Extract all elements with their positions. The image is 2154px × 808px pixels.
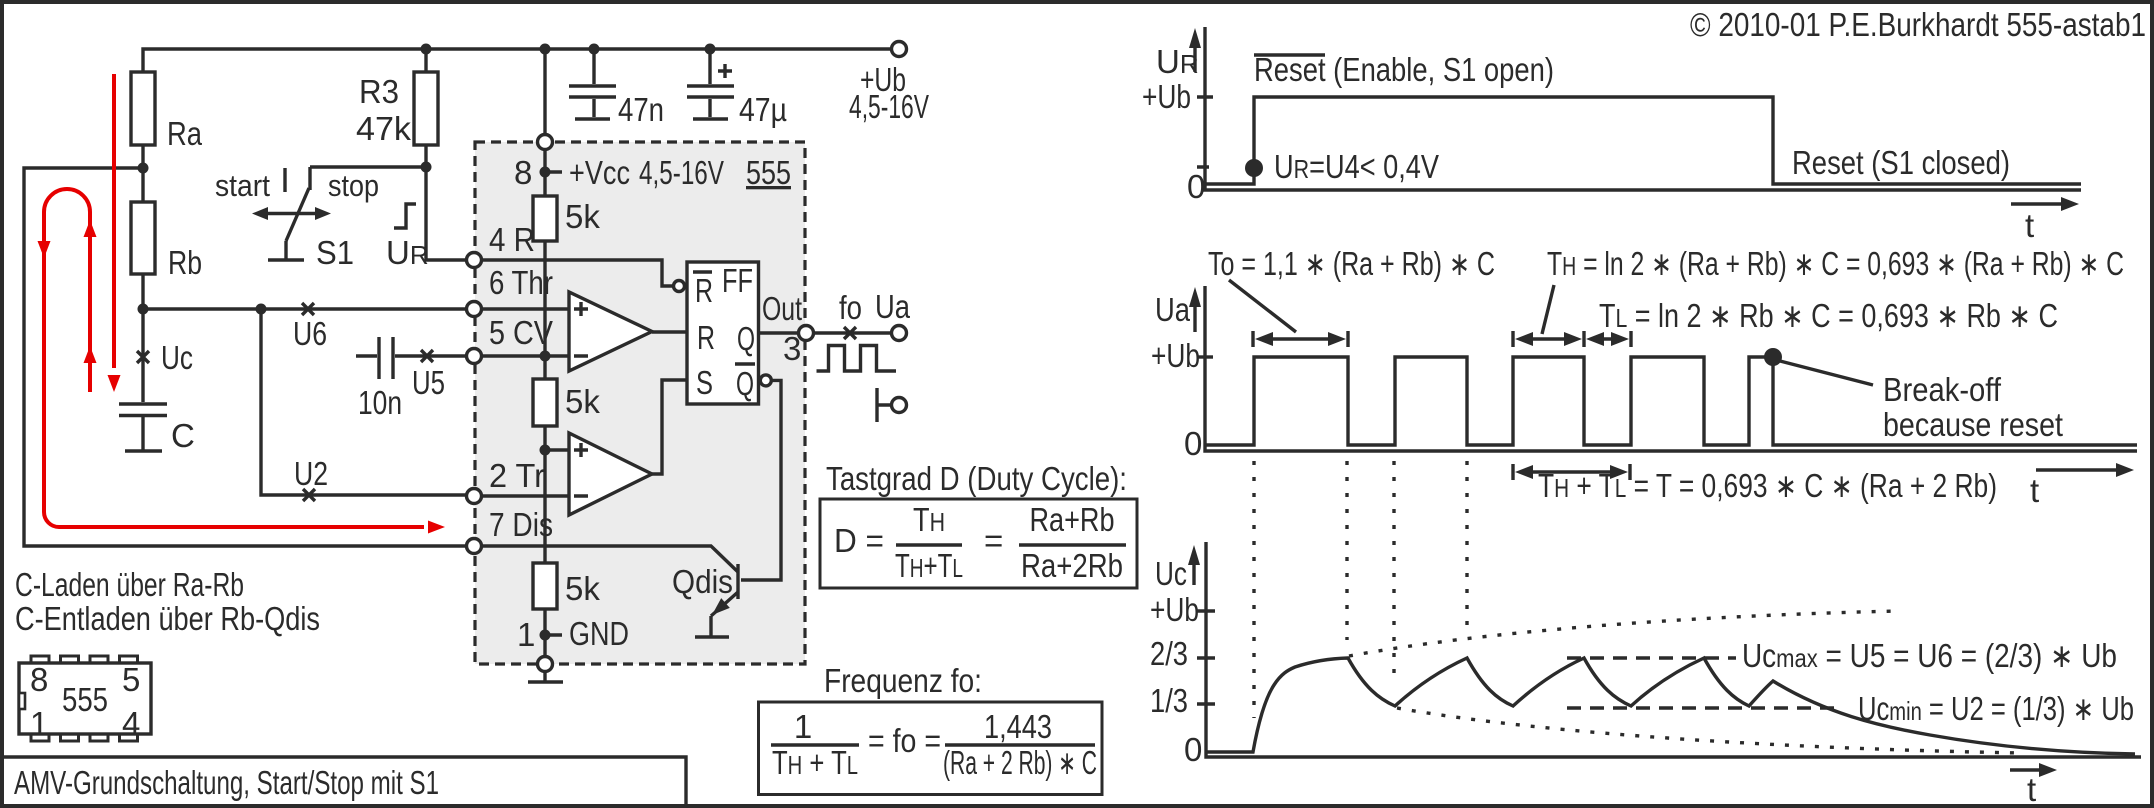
svg-text:TH + TL: TH + TL	[772, 744, 858, 781]
svg-text:Ua: Ua	[1155, 291, 1191, 328]
svg-text:R3: R3	[359, 73, 399, 110]
svg-text:© 2010-01 P.E.Burkhardt 555-as: © 2010-01 P.E.Burkhardt 555-astab1	[1690, 6, 2146, 43]
svg-text:6 Thr: 6 Thr	[489, 264, 553, 301]
svg-text:=: =	[984, 522, 1003, 559]
svg-text:0: 0	[1184, 731, 1202, 768]
svg-text:+Ub: +Ub	[1150, 591, 1199, 628]
svg-text:555: 555	[62, 681, 108, 718]
svg-text:4,5-16V: 4,5-16V	[849, 88, 929, 125]
svg-text:3: 3	[783, 330, 801, 367]
svg-text:C: C	[171, 417, 195, 454]
svg-text:Rb: Rb	[168, 244, 202, 281]
svg-text:U6: U6	[293, 315, 327, 352]
svg-text:Tastgrad D (Duty Cycle):: Tastgrad D (Duty Cycle):	[826, 460, 1127, 497]
svg-text:1: 1	[30, 705, 48, 742]
svg-text:2 Tr: 2 Tr	[489, 457, 545, 494]
svg-text:R: R	[695, 272, 713, 309]
svg-text:C-Laden über Ra-Rb: C-Laden über Ra-Rb	[15, 566, 244, 603]
svg-text:47k: 47k	[356, 110, 412, 147]
svg-text:t: t	[2025, 207, 2034, 244]
svg-text:Ra+Rb: Ra+Rb	[1030, 501, 1115, 538]
svg-text:Ra+2Rb: Ra+2Rb	[1021, 547, 1123, 584]
svg-text:+Vcc: +Vcc	[569, 154, 630, 191]
svg-text:4,5-16V: 4,5-16V	[639, 154, 724, 191]
svg-text:5: 5	[122, 661, 140, 698]
svg-text:TL = ln 2 ∗ Rb ∗ C = 0,693 ∗ R: TL = ln 2 ∗ Rb ∗ C = 0,693 ∗ Rb ∗ C	[1599, 297, 2058, 334]
svg-text:0: 0	[1184, 425, 1202, 462]
svg-text:(Ra + 2 Rb) ∗ C: (Ra + 2 Rb) ∗ C	[943, 744, 1097, 781]
svg-text:Uc: Uc	[1155, 555, 1187, 592]
svg-text:47n: 47n	[618, 91, 664, 128]
svg-text:TH+TL: TH+TL	[895, 547, 963, 584]
svg-text:= fo =: = fo =	[868, 722, 941, 759]
svg-text:S1: S1	[316, 234, 354, 271]
svg-text:To = 1,1 ∗ (Ra + Rb) ∗ C: To = 1,1 ∗ (Ra + Rb) ∗ C	[1208, 245, 1495, 282]
svg-text:because reset: because reset	[1883, 406, 2063, 443]
svg-text:1,443: 1,443	[984, 708, 1052, 745]
svg-text:TH + TL = T = 0,693 ∗ C ∗ (Ra: TH + TL = T = 0,693 ∗ C ∗ (Ra + 2 Rb)	[1538, 467, 1997, 504]
svg-text:1: 1	[794, 708, 812, 745]
svg-text:Ra: Ra	[167, 115, 203, 152]
svg-text:GND: GND	[569, 615, 629, 652]
svg-text:1: 1	[517, 616, 535, 653]
svg-text:5k: 5k	[565, 383, 600, 420]
svg-text:stop: stop	[328, 168, 379, 203]
svg-text:7 Dis: 7 Dis	[489, 506, 553, 543]
svg-text:+Ub: +Ub	[1151, 337, 1200, 374]
svg-text:fo: fo	[839, 289, 862, 326]
svg-text:Reset (S1 closed): Reset (S1 closed)	[1792, 144, 2010, 181]
svg-text:0: 0	[1187, 168, 1205, 205]
svg-text:FF: FF	[722, 262, 753, 299]
svg-text:UR: UR	[1156, 43, 1199, 80]
svg-text:UR=U4< 0,4V: UR=U4< 0,4V	[1274, 148, 1439, 185]
svg-text:5k: 5k	[565, 570, 600, 607]
svg-text:TH: TH	[913, 501, 945, 538]
svg-text:4 R: 4 R	[489, 221, 535, 258]
svg-text:1/3: 1/3	[1150, 682, 1188, 719]
svg-text:10n: 10n	[358, 384, 402, 421]
svg-text:5 CV: 5 CV	[489, 314, 553, 351]
svg-text:4: 4	[122, 705, 140, 742]
svg-text:Q: Q	[737, 320, 755, 357]
svg-text:Break-off: Break-off	[1883, 371, 2002, 408]
svg-text:Ucmax = U5 = U6 = (2/3) ∗ Ub: Ucmax = U5 = U6 = (2/3) ∗ Ub	[1742, 637, 2117, 674]
svg-text:t: t	[2030, 472, 2039, 509]
svg-text:8: 8	[30, 661, 48, 698]
svg-text:D =: D =	[834, 522, 884, 559]
svg-text:t: t	[2027, 771, 2036, 808]
svg-text:C-Entladen über Rb-Qdis: C-Entladen über Rb-Qdis	[15, 600, 320, 637]
svg-text:Reset (Enable, S1 open): Reset (Enable, S1 open)	[1254, 51, 1554, 88]
svg-text:555: 555	[746, 154, 791, 191]
svg-text:U2: U2	[294, 455, 328, 492]
svg-text:U5: U5	[412, 364, 445, 401]
svg-text:start: start	[215, 168, 270, 203]
svg-text:UR: UR	[386, 234, 429, 271]
svg-text:Q: Q	[736, 365, 754, 402]
svg-text:Ua: Ua	[875, 288, 911, 325]
svg-text:S: S	[696, 364, 713, 401]
svg-text:5k: 5k	[565, 198, 600, 235]
svg-text:AMV-Grundschaltung, Start/Stop: AMV-Grundschaltung, Start/Stop mit S1	[14, 764, 439, 801]
svg-text:Qdis: Qdis	[672, 563, 733, 600]
svg-text:Out: Out	[762, 290, 802, 327]
svg-text:Frequenz fo:: Frequenz fo:	[824, 662, 982, 699]
svg-text:2/3: 2/3	[1150, 635, 1188, 672]
svg-text:+Ub: +Ub	[1142, 78, 1191, 115]
svg-text:TH = ln 2 ∗ (Ra + Rb) ∗ C = 0,: TH = ln 2 ∗ (Ra + Rb) ∗ C = 0,693 ∗ (Ra …	[1547, 245, 2124, 282]
svg-text:8: 8	[514, 154, 532, 191]
svg-text:Uc: Uc	[161, 339, 193, 376]
svg-text:47µ: 47µ	[739, 91, 787, 128]
svg-text:Ucmin = U2 = (1/3) ∗ Ub: Ucmin = U2 = (1/3) ∗ Ub	[1858, 690, 2134, 727]
svg-text:R: R	[697, 319, 715, 356]
